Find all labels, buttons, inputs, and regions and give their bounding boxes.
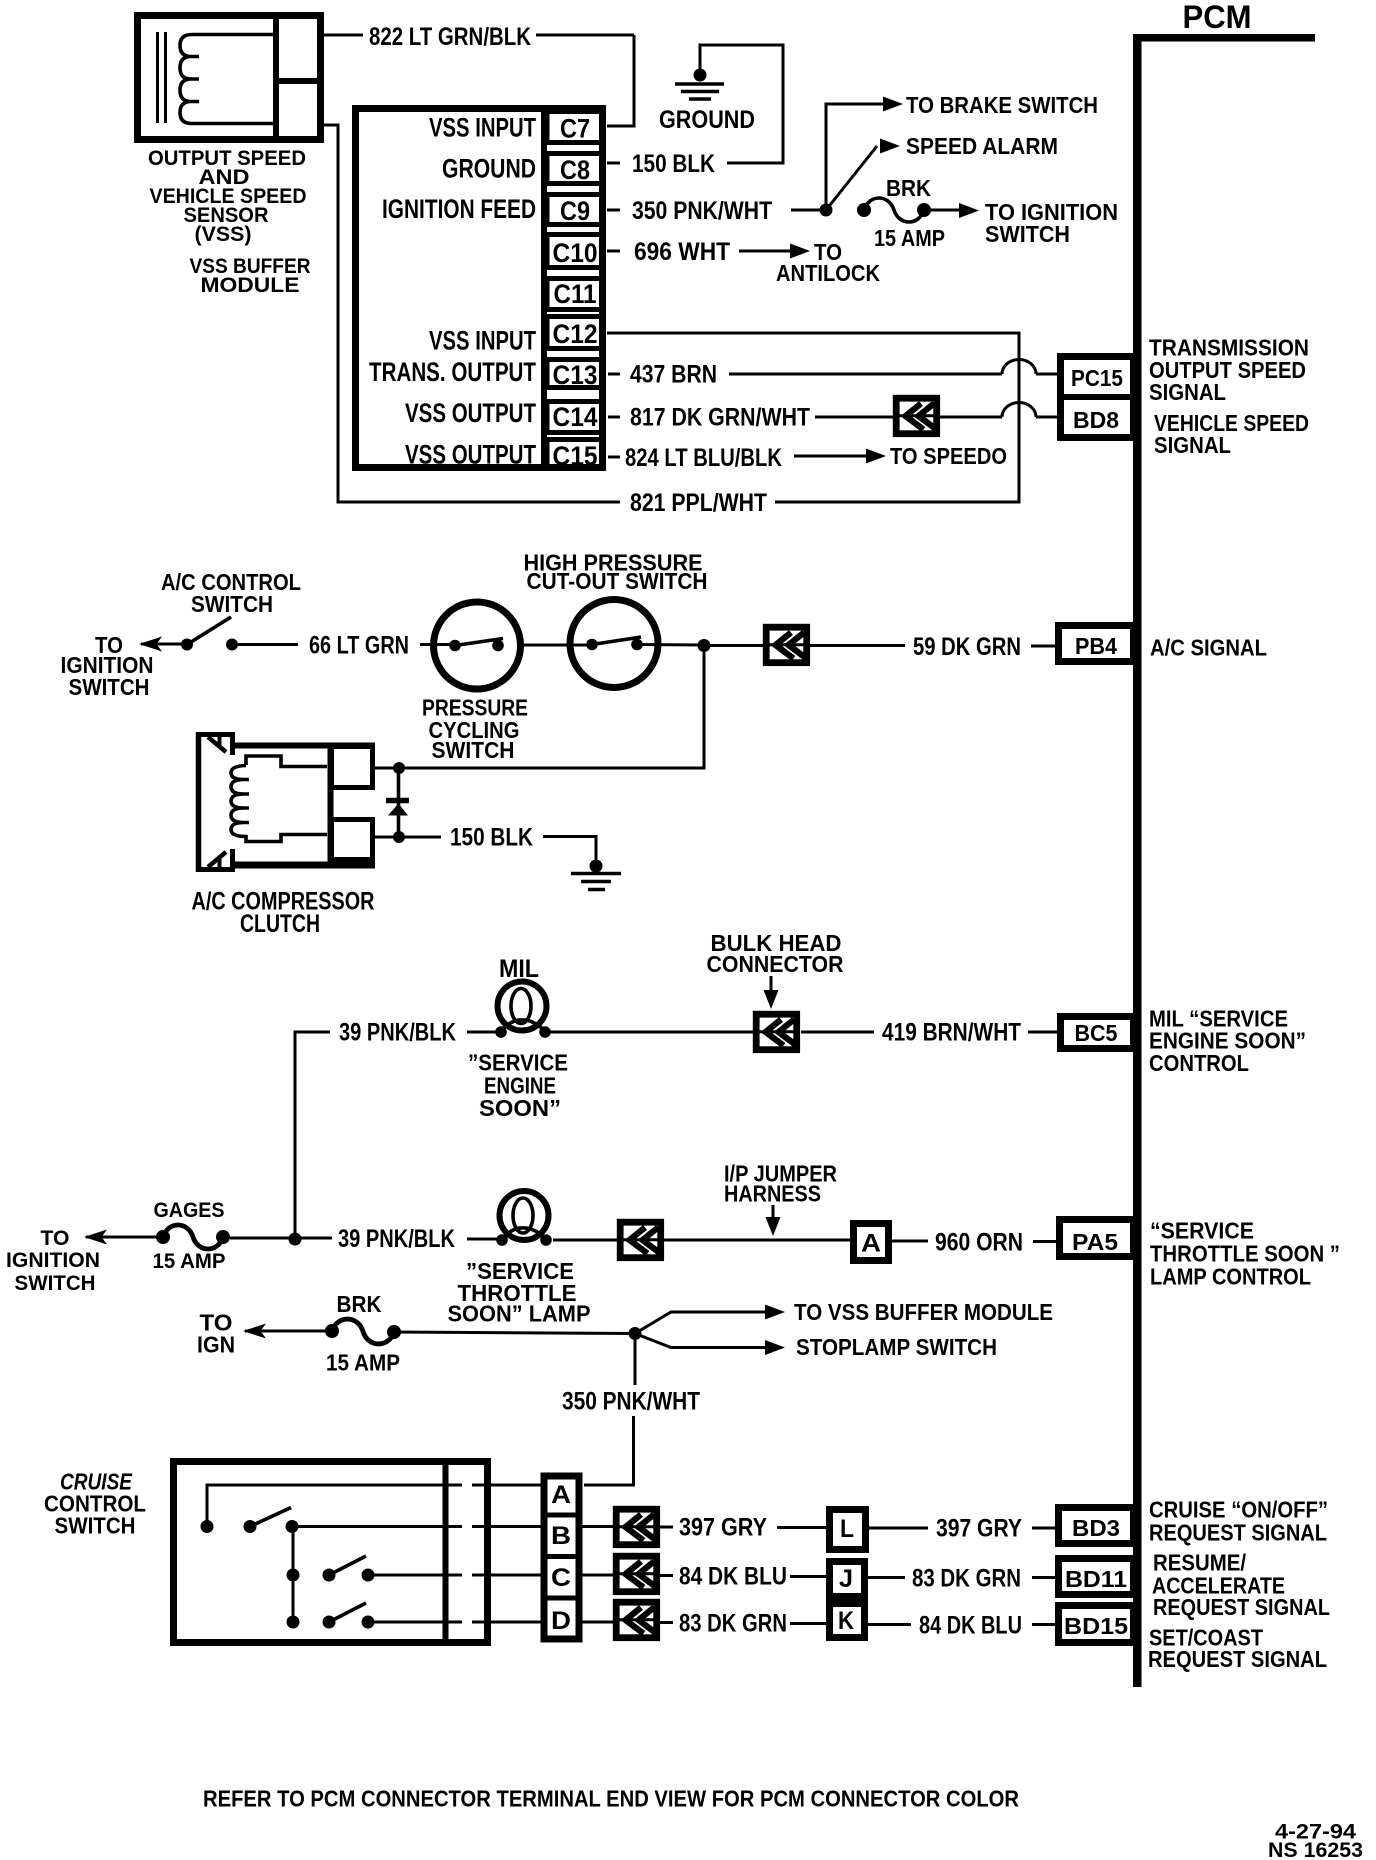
label CRUISE ON/OFF REQUEST SIGNAL <box>1149 1497 1328 1546</box>
svg-text:VSS INPUT: VSS INPUT <box>429 326 536 356</box>
wire 83 DK GRN to terminal K <box>660 1610 826 1638</box>
wire 419 BRN/WHT to BC5 <box>801 1019 1058 1047</box>
cruise wire row D <box>368 1621 543 1624</box>
svg-text:C10: C10 <box>553 238 598 268</box>
label TRANSMISSION OUTPUT SPEED SIGNAL <box>1149 335 1309 406</box>
terminal L <box>830 1510 866 1550</box>
pin C8 <box>547 154 602 184</box>
svg-text:419 BRN/WHT: 419 BRN/WHT <box>882 1019 1021 1047</box>
clutch coil housing <box>235 743 375 868</box>
label "SERVICE ENGINE SOON" <box>468 1050 568 1122</box>
pin C13 <box>547 360 602 388</box>
svg-text:IGNITION FEED: IGNITION FEED <box>382 194 536 224</box>
wire 822 LT GRN/BLK from sensor to C7 <box>324 35 634 126</box>
module pin name labels <box>369 113 536 470</box>
set/coast switch contacts <box>287 1603 375 1629</box>
svg-text:150 BLK: 150 BLK <box>632 150 715 178</box>
svg-text:GROUND: GROUND <box>442 154 536 184</box>
pin C11 <box>547 279 602 310</box>
wire 84 DK BLU to terminal J <box>660 1563 826 1591</box>
clutch terminal lower <box>332 820 373 860</box>
bulkhead connector symbol (row B) <box>613 1509 660 1545</box>
svg-text:IGNITION: IGNITION <box>6 1249 100 1272</box>
wire 350 PNK/WHT down to cruise terminal A <box>562 1334 700 1486</box>
svg-text:84 DK BLU: 84 DK BLU <box>679 1563 787 1591</box>
wire 66 LT GRN <box>238 632 456 660</box>
svg-text:SWITCH: SWITCH <box>191 591 273 617</box>
fuse BRK 15 AMP (top) <box>857 175 945 251</box>
wire 821 from sensor lower pin down <box>324 125 620 502</box>
wire junction down to compressor clutch <box>405 646 704 769</box>
svg-text:PB4: PB4 <box>1075 633 1117 659</box>
pin C9 <box>547 195 602 225</box>
svg-text:C: C <box>551 1564 571 1592</box>
label BULK HEAD CONNECTOR with arrow <box>707 930 844 1009</box>
pin C15 <box>547 440 602 469</box>
A/C control switch contacts <box>181 617 238 651</box>
pressure cycling switch <box>434 602 521 689</box>
PCM terminal PB4 <box>1059 626 1134 662</box>
svg-text:SOON” LAMP: SOON” LAMP <box>448 1301 591 1327</box>
pin C7 <box>547 112 602 143</box>
branch to VSS buffer module <box>635 1299 1053 1334</box>
svg-text:BRK: BRK <box>886 175 931 201</box>
bulkhead connector symbol (row D) <box>613 1602 660 1638</box>
MIL lamp "SERVICE ENGINE SOON" <box>495 955 551 1038</box>
svg-text:HARNESS: HARNESS <box>724 1181 821 1207</box>
junction node A/C <box>698 639 711 652</box>
label SET/COAST REQUEST SIGNAL <box>1148 1625 1327 1673</box>
svg-text:350 PNK/WHT: 350 PNK/WHT <box>632 197 772 225</box>
lamp "SERVICE THROTTLE SOON" <box>496 1191 552 1246</box>
svg-text:(VSS): (VSS) <box>195 223 252 246</box>
svg-text:C7: C7 <box>560 114 590 144</box>
svg-text:83 DK GRN: 83 DK GRN <box>912 1565 1021 1593</box>
label TO IGNITION SWITCH (gages) <box>6 1227 100 1295</box>
terminal J <box>830 1562 865 1597</box>
svg-text:SWITCH: SWITCH <box>69 674 150 700</box>
svg-text:83 DK GRN: 83 DK GRN <box>679 1610 787 1638</box>
svg-text:824 LT BLU/BLK: 824 LT BLU/BLK <box>625 444 782 472</box>
svg-text:SWITCH: SWITCH <box>15 1272 96 1295</box>
wire 817 DK GRN/WHT from C14 to BD8 <box>608 404 893 432</box>
wire upper terminal to junction <box>373 767 405 770</box>
svg-text:350 PNK/WHT: 350 PNK/WHT <box>562 1388 700 1416</box>
svg-text:SPEED ALARM: SPEED ALARM <box>906 133 1058 159</box>
junction node upper <box>393 762 405 774</box>
svg-text:IGN: IGN <box>197 1332 235 1358</box>
wire 84 DK BLU to BD15 <box>868 1612 1058 1640</box>
label PRESSURE CYCLING SWITCH <box>422 695 528 764</box>
svg-text:BRK: BRK <box>337 1291 382 1317</box>
svg-text:PA5: PA5 <box>1072 1229 1118 1255</box>
high pressure cut-out switch <box>570 600 658 688</box>
svg-text:C8: C8 <box>560 155 590 185</box>
svg-text:GROUND: GROUND <box>659 106 755 134</box>
label RESUME/ACCELERATE REQUEST SIGNAL <box>1152 1550 1330 1621</box>
output speed and vehicle speed sensor (VSS) body <box>138 16 321 140</box>
svg-text:59 DK GRN: 59 DK GRN <box>913 633 1021 661</box>
wire fuse to junction <box>230 1237 332 1240</box>
svg-text:D: D <box>551 1607 571 1635</box>
PCM terminal BD15 <box>1059 1606 1134 1643</box>
svg-text:LAMP CONTROL: LAMP CONTROL <box>1150 1264 1311 1290</box>
svg-text:STOPLAMP SWITCH: STOPLAMP SWITCH <box>796 1334 997 1360</box>
svg-text:15 AMP: 15 AMP <box>153 1250 226 1273</box>
svg-text:C15: C15 <box>553 441 598 471</box>
svg-text:397 GRY: 397 GRY <box>679 1514 767 1542</box>
PCM boundary line <box>1133 34 1315 1687</box>
wire 39 PNK/BLK branch (MIL row) <box>295 1032 330 1233</box>
bulkhead connector symbol (row C) <box>613 1556 660 1592</box>
svg-text:SIGNAL: SIGNAL <box>1154 432 1231 458</box>
pin C12 <box>547 317 602 349</box>
svg-text:L: L <box>840 1515 854 1543</box>
wire to A/C junction <box>637 643 704 647</box>
svg-text:VSS OUTPUT: VSS OUTPUT <box>405 398 536 428</box>
label VSS BUFFER MODULE <box>190 255 311 297</box>
svg-text:ANTILOCK: ANTILOCK <box>776 260 880 286</box>
wire 397 GRY to BD3 <box>869 1515 1058 1543</box>
svg-text:K: K <box>838 1607 854 1635</box>
svg-text:TO VSS BUFFER MODULE: TO VSS BUFFER MODULE <box>794 1299 1053 1325</box>
svg-text:397 GRY: 397 GRY <box>936 1515 1022 1543</box>
wire 350 PNK/WHT from C9 <box>607 209 826 212</box>
wire connector to terminal A <box>664 1239 850 1242</box>
svg-text:84 DK BLU: 84 DK BLU <box>919 1612 1022 1640</box>
svg-text:REQUEST SIGNAL: REQUEST SIGNAL <box>1148 1646 1327 1672</box>
svg-text:J: J <box>839 1565 853 1593</box>
svg-text:C13: C13 <box>553 360 598 390</box>
label A/C COMPRESSOR CLUTCH <box>192 888 375 939</box>
label OUTPUT SPEED AND VEHICLE SPEED SENSOR (VSS) <box>148 147 307 246</box>
svg-text:SIGNAL: SIGNAL <box>1149 379 1226 405</box>
pin C14 <box>547 402 602 433</box>
svg-text:15 AMP: 15 AMP <box>874 225 945 251</box>
wire 150 BLK to ground <box>373 824 596 861</box>
wire 824 LT BLU/BLK to speedo <box>608 443 1007 472</box>
label SERVICE THROTTLE SOON LAMP CONTROL <box>1150 1218 1340 1290</box>
wire D to connector <box>582 1621 613 1624</box>
svg-text:TO BRAKE SWITCH: TO BRAKE SWITCH <box>906 92 1098 118</box>
svg-text:A: A <box>551 1481 571 1509</box>
cruise common bus <box>292 1527 295 1623</box>
svg-text:960 ORN: 960 ORN <box>935 1229 1023 1257</box>
svg-text:TO SPEEDO: TO SPEEDO <box>890 443 1007 469</box>
diode across clutch coil <box>386 768 409 837</box>
ground symbol (clutch) <box>571 860 621 890</box>
svg-text:SOON”: SOON” <box>479 1095 561 1121</box>
bulkhead connector symbol (MIL row) <box>753 1014 800 1049</box>
svg-text:REQUEST SIGNAL: REQUEST SIGNAL <box>1153 1594 1330 1620</box>
svg-text:39 PNK/BLK: 39 PNK/BLK <box>339 1019 456 1047</box>
cruise connector terminals A B C D <box>541 1476 582 1639</box>
terminal K <box>830 1604 865 1638</box>
resume/accel switch contacts <box>287 1556 375 1582</box>
svg-text:SWITCH: SWITCH <box>985 221 1070 247</box>
svg-text:REFER TO PCM CONNECTOR TERMINA: REFER TO PCM CONNECTOR TERMINAL END VIEW… <box>203 1786 1019 1812</box>
svg-text:CONNECTOR: CONNECTOR <box>707 951 844 977</box>
PCM terminal BD3 <box>1059 1508 1134 1544</box>
A/C compressor clutch plate <box>196 732 235 872</box>
svg-text:REQUEST SIGNAL: REQUEST SIGNAL <box>1149 1520 1327 1546</box>
svg-text:SWITCH: SWITCH <box>55 1513 136 1539</box>
svg-text:NS 16253: NS 16253 <box>1268 1839 1363 1860</box>
svg-text:BD3: BD3 <box>1072 1515 1120 1541</box>
svg-text:TO: TO <box>41 1227 70 1250</box>
wire junction to bulkhead connector <box>704 644 763 647</box>
fuse BRK 15 AMP (stoplamp feed) <box>325 1291 401 1376</box>
svg-text:BD15: BD15 <box>1064 1613 1128 1639</box>
svg-text:A: A <box>861 1230 881 1258</box>
svg-text:437 BRN: 437 BRN <box>630 361 717 389</box>
label CRUISE CONTROL SWITCH <box>44 1469 146 1539</box>
ground symbol (top) <box>659 69 755 135</box>
label TO IGN <box>197 1310 235 1358</box>
wire C to connector <box>582 1574 613 1577</box>
label "SERVICE THROTTLE SOON" LAMP <box>448 1258 591 1327</box>
pin C10 <box>547 235 602 268</box>
sensor connector divider <box>276 12 324 143</box>
label I/P JUMPER HARNESS with arrow <box>724 1161 837 1237</box>
svg-text:C9: C9 <box>560 196 590 226</box>
bulkhead connector symbol on A/C wire <box>763 627 810 663</box>
cruise wire row B <box>292 1525 543 1528</box>
svg-text:822 LT GRN/BLK: 822 LT GRN/BLK <box>369 23 531 51</box>
wire 59 DK GRN to PB4 <box>810 633 1058 661</box>
label A/C CONTROL SWITCH <box>161 569 301 617</box>
svg-text:821 PPL/WHT: 821 PPL/WHT <box>630 489 767 517</box>
junction node 350 PNK/WHT <box>629 1327 642 1340</box>
svg-text:CLUTCH: CLUTCH <box>240 910 320 938</box>
svg-text:BD8: BD8 <box>1073 407 1119 433</box>
svg-text:B: B <box>551 1522 571 1550</box>
wire 437 BRN from C13 to PC15 with hop <box>608 360 1058 389</box>
cruise on/off switch contacts <box>201 1508 299 1534</box>
wire 696 WHT to antilock <box>607 238 880 286</box>
svg-text:BC5: BC5 <box>1075 1020 1118 1046</box>
wire to speed alarm <box>826 133 1058 210</box>
svg-text:A/C SIGNAL: A/C SIGNAL <box>1150 635 1267 661</box>
label TO IGNITION SWITCH (A/C) <box>61 632 154 700</box>
bulkhead connector symbol (lamp row) <box>617 1222 664 1258</box>
wire MIL lamp to bulkhead connector <box>549 1031 753 1034</box>
svg-text:SWITCH: SWITCH <box>432 737 515 763</box>
svg-text:VSS INPUT: VSS INPUT <box>429 113 536 143</box>
svg-text:PC15: PC15 <box>1071 365 1123 391</box>
VSS buffer module box <box>356 107 603 469</box>
svg-text:39 PNK/BLK: 39 PNK/BLK <box>338 1225 455 1253</box>
wire 397 GRY to terminal L <box>660 1514 826 1542</box>
wire 83 DK GRN to BD11 <box>868 1565 1058 1593</box>
arrow to ignition switch <box>139 637 187 652</box>
clutch terminal upper <box>332 747 373 788</box>
svg-text:CONTROL: CONTROL <box>1149 1050 1249 1076</box>
bulkhead connector symbol on 817 wire <box>893 398 940 434</box>
wire between switches <box>520 644 592 647</box>
junction node on 350 wire <box>820 204 833 217</box>
clutch coil winding <box>231 756 327 842</box>
svg-text:PCM: PCM <box>1183 0 1252 35</box>
wire from C12 down to 821 PPL/WHT <box>607 333 1019 502</box>
wire 960 ORN to PA5 <box>892 1229 1058 1257</box>
wire to brake switch <box>826 92 1098 210</box>
cruise wire row C <box>368 1574 543 1577</box>
svg-text:15 AMP: 15 AMP <box>326 1350 400 1376</box>
junction node (39 PNK/BLK) <box>289 1233 302 1246</box>
svg-text:TRANS. OUTPUT: TRANS. OUTPUT <box>369 357 536 387</box>
wire to ignition switch (top) <box>931 199 1118 247</box>
svg-text:CUT-OUT SWITCH: CUT-OUT SWITCH <box>527 568 708 594</box>
PCM terminal PA5 <box>1060 1220 1134 1257</box>
svg-text:C11: C11 <box>554 279 597 309</box>
svg-text:BD11: BD11 <box>1065 1566 1127 1592</box>
label HIGH PRESSURE CUT-OUT SWITCH <box>524 550 708 595</box>
svg-text:C14: C14 <box>553 402 598 432</box>
fuse GAGES 15 AMP <box>153 1199 231 1273</box>
arrow to ignition switch (gages) <box>84 1230 163 1245</box>
branch to stoplamp switch <box>635 1334 997 1361</box>
svg-text:817 DK GRN/WHT: 817 DK GRN/WHT <box>630 404 810 432</box>
label VEHICLE SPEED SIGNAL <box>1154 410 1309 458</box>
svg-text:696 WHT: 696 WHT <box>634 238 730 266</box>
PCM terminal BC5 <box>1061 1017 1134 1049</box>
wire fuse to branch junction <box>394 1332 635 1334</box>
cruise wire row A <box>207 1485 543 1526</box>
svg-text:GAGES: GAGES <box>154 1199 225 1222</box>
svg-text:C12: C12 <box>553 319 598 349</box>
sensor coil winding <box>180 35 274 124</box>
PCM terminal PC15 <box>1057 357 1134 438</box>
svg-text:MODULE: MODULE <box>201 274 300 297</box>
junction node lower <box>393 831 405 843</box>
cruise control switch box <box>174 1459 488 1645</box>
wire B to connector <box>582 1525 613 1528</box>
arrow to IGN <box>243 1324 332 1339</box>
label MIL SERVICE ENGINE SOON CONTROL <box>1149 1006 1306 1077</box>
svg-text:66 LT GRN: 66 LT GRN <box>309 632 409 660</box>
terminal A (I/P jumper) <box>854 1224 889 1261</box>
svg-text:VSS OUTPUT: VSS OUTPUT <box>405 440 536 470</box>
wire lamp to connector <box>553 1239 618 1242</box>
wire 150 BLK from C8 to ground <box>607 45 783 163</box>
svg-text:150 BLK: 150 BLK <box>450 824 533 852</box>
PCM terminal BD11 <box>1059 1559 1134 1595</box>
